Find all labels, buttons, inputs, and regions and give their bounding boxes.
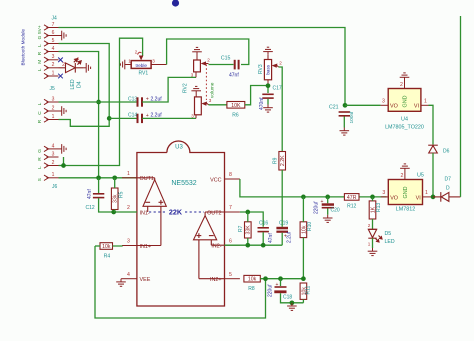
svg-text:R: R — [37, 51, 43, 55]
svg-text:C17: C17 — [273, 86, 282, 92]
J6 pin 3 — [44, 154, 59, 159]
wire IN2- net — [225, 244, 283, 246]
svg-text:LM7812: LM7812 — [396, 207, 415, 213]
svg-text:VCC: VCC — [210, 177, 221, 183]
svg-text:2: 2 — [400, 173, 403, 179]
svg-text:VEE: VEE — [140, 277, 151, 283]
LED D5 — [368, 229, 382, 242]
potentiometer RV3 (bass) — [264, 60, 271, 80]
ground at RV3 top — [263, 47, 273, 55]
junction C14 node — [107, 116, 112, 121]
potentiometer RV1 (treble) — [131, 61, 151, 69]
wire C20 top lead — [327, 197, 329, 203]
wire R11 bottom lead — [302, 299, 304, 302]
svg-text:U5: U5 — [417, 173, 424, 179]
diode D7 — [433, 192, 461, 202]
U3 pin 4 VEE — [122, 278, 137, 280]
svg-text:5V+: 5V+ — [37, 25, 43, 34]
resistor R4 — [100, 243, 113, 250]
svg-text:220uf: 220uf — [314, 201, 320, 214]
svg-text:VI: VI — [414, 103, 419, 109]
mechanical link dashed (volume) — [205, 65, 207, 101]
J4 pin 5 — [44, 41, 59, 46]
resistor R9 — [279, 152, 286, 171]
svg-text:OUT1: OUT1 — [140, 176, 154, 182]
J4 pin 2 — [44, 65, 59, 70]
svg-text:NE5532: NE5532 — [171, 180, 196, 187]
svg-text:J5: J5 — [50, 86, 56, 92]
junction C17 — [266, 83, 271, 88]
svg-text:RV3: RV3 — [258, 64, 264, 74]
wire J6 pin 2 up to RV1 wiper — [59, 38, 143, 165]
svg-text:OUT2: OUT2 — [207, 210, 221, 216]
ground at U4 GND — [400, 73, 410, 81]
wire C18 top lead — [280, 279, 282, 286]
svg-text:3: 3 — [52, 151, 55, 157]
J4 pin 6 — [44, 33, 59, 38]
wire to C12 top — [98, 178, 100, 193]
svg-text:7: 7 — [52, 22, 55, 28]
svg-text:GND: GND — [403, 95, 409, 107]
svg-text:C18: C18 — [283, 295, 292, 301]
wire C17 to ground — [267, 99, 269, 105]
svg-text:IN1-: IN1- — [140, 210, 150, 216]
svg-text:D4: D4 — [77, 81, 83, 88]
svg-text:2: 2 — [62, 62, 65, 68]
svg-text:RV1: RV1 — [138, 71, 148, 77]
no-connect X at J4 pin 1 — [58, 74, 63, 79]
svg-text:+: + — [321, 199, 324, 205]
junction C20 — [325, 195, 330, 200]
svg-text:IN2+: IN2+ — [210, 277, 222, 283]
ground at C17 — [263, 105, 273, 113]
svg-text:1: 1 — [52, 114, 55, 120]
svg-text:IN1+: IN1+ — [140, 244, 152, 250]
svg-text:C20: C20 — [331, 208, 340, 214]
wire R6 to C17 node — [245, 86, 268, 105]
potentiometer RV2 section A (volume) — [194, 60, 201, 72]
wire RV3 wiper down to R9 — [279, 67, 283, 152]
wire R4 left stub — [95, 245, 100, 247]
svg-text:C16: C16 — [259, 221, 268, 227]
wire R12 to U5 — [359, 196, 387, 198]
wire C12 bottom to U3 pin 2 — [99, 198, 137, 212]
feedback 22K dashed annotation — [149, 211, 166, 213]
junction C12 top — [96, 175, 101, 180]
capacitor C21 100nf — [339, 112, 350, 116]
U3 pin 1 OUT1 — [122, 177, 137, 179]
svg-text:10K: 10K — [231, 103, 241, 109]
svg-text:4: 4 — [52, 46, 55, 52]
wire RV2 wiper to R6 — [209, 104, 227, 106]
wire R7 top lead — [247, 212, 249, 222]
junction feedback — [263, 276, 268, 281]
op-amp U3B triangle — [194, 212, 225, 279]
svg-text:R10: R10 — [307, 222, 313, 231]
svg-text:GND: GND — [403, 186, 409, 198]
svg-text:volume: volume — [210, 82, 216, 98]
svg-text:R9: R9 — [273, 157, 279, 164]
svg-text:R7: R7 — [238, 225, 244, 232]
op-amp U3 NE5532 body — [137, 141, 225, 306]
capacitor C16 47nf — [258, 228, 269, 232]
ground at LED D4 — [83, 63, 91, 73]
svg-text:10k: 10k — [102, 244, 111, 250]
wire J4 pin 5 down to C14 node — [59, 44, 110, 119]
ground at RV1 pin 1 — [120, 60, 128, 70]
resistor R11 — [300, 283, 307, 299]
wire J5 pin 3 to C13 — [59, 101, 138, 103]
svg-text:8: 8 — [229, 172, 232, 178]
svg-text:R4: R4 — [104, 254, 111, 260]
J5 pin 2 — [44, 108, 59, 113]
svg-text:22K: 22K — [169, 208, 183, 217]
J4 pin 1 — [44, 73, 59, 78]
svg-text:M: M — [37, 60, 43, 64]
potentiometer RV2 section B (volume) — [195, 97, 202, 115]
U3 pin 8 VCC — [225, 178, 240, 180]
J5 pin 3 — [44, 99, 59, 104]
svg-text:2: 2 — [279, 61, 282, 66]
junction R7 top — [245, 210, 250, 215]
junction R11 top — [301, 276, 306, 281]
resistor R6 — [227, 102, 245, 109]
ground at C21 — [340, 128, 350, 136]
junction C18 ground — [290, 300, 295, 305]
svg-text:+: + — [276, 282, 279, 288]
svg-text:2: 2 — [368, 223, 371, 228]
J6 pin 2 — [44, 163, 59, 168]
svg-text:J6: J6 — [52, 184, 58, 190]
junction J5 pin3 / J4 pin4 — [96, 100, 101, 105]
svg-text:LED: LED — [385, 239, 395, 245]
svg-text:R: R — [37, 157, 43, 161]
wire J4 pin 4 down to OUT1 net — [59, 52, 99, 178]
svg-text:D6: D6 — [443, 149, 450, 155]
svg-text:5: 5 — [229, 272, 232, 278]
svg-text:VO: VO — [390, 103, 398, 109]
svg-text:2: 2 — [52, 160, 55, 166]
wire OUT2 to C16 — [240, 212, 263, 227]
svg-text:treble: treble — [135, 63, 147, 68]
svg-text:4: 4 — [127, 272, 130, 278]
wire R13 to D5 — [372, 219, 374, 229]
svg-text:2: 2 — [52, 105, 55, 111]
svg-text:IN2-: IN2- — [211, 244, 221, 250]
wire feedback loop bottom — [95, 246, 266, 318]
resistor R13 — [369, 201, 376, 219]
svg-text:L: L — [37, 166, 43, 169]
svg-text:C13: C13 — [128, 96, 137, 102]
ground at C18 — [287, 303, 297, 311]
svg-text:2.2uf: 2.2uf — [287, 231, 293, 243]
wire R10 top lead — [302, 197, 304, 222]
svg-text:L: L — [37, 44, 43, 47]
svg-text:G: G — [37, 149, 43, 153]
svg-text:47nf: 47nf — [229, 73, 239, 79]
wire to C14 left — [109, 117, 137, 119]
wire C20 bottom lead — [327, 209, 329, 215]
op-amp U3A triangle — [137, 178, 166, 246]
no-connect X at J4 pin 3 — [58, 58, 63, 63]
ground at D5 — [368, 248, 378, 256]
svg-text:C21: C21 — [329, 104, 339, 110]
svg-text:C19: C19 — [279, 221, 288, 227]
svg-text:R5: R5 — [118, 191, 124, 198]
svg-text:2: 2 — [400, 82, 403, 88]
svg-text:1: 1 — [425, 190, 428, 196]
wire R9 down to C19 (crosses VCC rail) — [281, 170, 283, 227]
svg-text:R11: R11 — [306, 285, 312, 294]
wire R10 bottom lead — [302, 238, 304, 279]
resistor R5 — [111, 188, 118, 210]
svg-text:U4: U4 — [401, 117, 408, 123]
svg-text:R: R — [37, 119, 43, 123]
ground at J5 pin 2 — [59, 106, 67, 116]
svg-text:1: 1 — [128, 59, 131, 64]
svg-text:D5: D5 — [385, 231, 392, 237]
capacitor C19 2.2uf polarized — [276, 227, 288, 230]
junction J6 pin2 — [61, 163, 66, 168]
wire OUT1 net from J6 pin 1 to U3 pin 1 — [59, 177, 137, 179]
ground between RV2 sections — [191, 86, 201, 96]
junction R5 top — [112, 175, 117, 180]
svg-text:2: 2 — [52, 62, 55, 68]
svg-text:3: 3 — [382, 190, 385, 196]
wire D6 down to U5 VI node — [432, 153, 434, 197]
svg-text:10k: 10k — [248, 277, 257, 283]
svg-text:7: 7 — [229, 205, 232, 211]
J6 pin 4 — [44, 146, 59, 151]
junction R5 bottom — [111, 210, 116, 215]
wire C21 to ground — [343, 117, 345, 128]
wire RV2a wiper to C15 — [209, 64, 234, 66]
wire C14 right to RV2b low terminal — [142, 117, 196, 119]
wire C13 right to RV2a low terminal — [142, 77, 196, 102]
svg-text:3: 3 — [127, 239, 130, 245]
svg-text:47R: 47R — [347, 195, 357, 201]
svg-text:2.2K: 2.2K — [280, 155, 286, 166]
svg-text:RV2: RV2 — [183, 83, 189, 93]
svg-text:U3: U3 — [175, 145, 183, 151]
wire J5 pin 1 to C14 node — [59, 118, 110, 126]
ground at J6 pin 4 — [59, 144, 67, 154]
wire D5 to ground — [372, 238, 374, 248]
cropped title text descender — [172, 0, 179, 7]
svg-text:LM7805_TO220: LM7805_TO220 — [385, 125, 424, 131]
U3 pin 3 IN1+ — [122, 245, 137, 247]
junction R10 top — [301, 195, 306, 200]
wire U4 VI down to D6 — [429, 105, 434, 144]
svg-text:S: S — [37, 178, 43, 181]
svg-text:bass: bass — [266, 64, 271, 74]
svg-text:5: 5 — [52, 38, 55, 44]
J4 pin 7 — [44, 25, 59, 30]
capacitor C14 2.2uf — [138, 114, 143, 123]
svg-text:C12: C12 — [86, 205, 95, 211]
wire J6 pin3 to pin2 tie — [63, 157, 65, 166]
svg-text:1: 1 — [52, 172, 55, 178]
regulator U4 LM7805_TO220 — [388, 89, 421, 112]
svg-text:J4: J4 — [52, 16, 58, 22]
svg-text:D: D — [446, 186, 450, 192]
wire R13 top lead — [372, 197, 374, 201]
wire R5 top — [114, 178, 116, 188]
svg-text:6: 6 — [229, 238, 232, 244]
wire C18 bottom to R11 bottom — [281, 293, 304, 303]
svg-text:C15: C15 — [221, 55, 231, 61]
resistor R7 — [245, 222, 252, 238]
wire RV1 pin 3 to C15 right — [167, 39, 249, 65]
svg-text:2: 2 — [207, 58, 210, 63]
wire C21 to U4 VO — [345, 104, 381, 106]
wire R5 bottom — [114, 210, 116, 213]
wire R7 bottom lead — [247, 238, 249, 245]
svg-text:R12: R12 — [347, 204, 356, 210]
svg-text:3: 3 — [152, 59, 155, 64]
svg-text:C14: C14 — [128, 113, 137, 119]
J6 pin 1 — [44, 175, 59, 180]
ground at U3 VEE — [116, 279, 126, 287]
svg-text:Bluetooth Module: Bluetooth Module — [21, 29, 26, 66]
svg-text:R6: R6 — [232, 113, 239, 119]
junction R13 top — [370, 195, 375, 200]
U3 pin 2 IN1- — [122, 211, 137, 213]
U3 pin 7 OUT2 — [225, 211, 240, 213]
junction C18 top — [278, 276, 283, 281]
svg-text:L: L — [37, 102, 43, 105]
U3 pin 5 IN2+ — [225, 278, 240, 280]
junction D6 / U5 VI / D7 — [431, 195, 436, 200]
svg-text:1: 1 — [77, 56, 80, 61]
svg-text:LED: LED — [70, 79, 76, 89]
svg-text:3: 3 — [52, 54, 55, 60]
wire C16 bottom — [262, 232, 264, 245]
wire R8 to R11 — [260, 278, 303, 280]
svg-text:VO: VO — [390, 196, 398, 202]
svg-text:1: 1 — [127, 171, 130, 177]
wire VCC rail — [240, 179, 345, 197]
svg-text:6: 6 — [52, 30, 55, 36]
svg-text:1: 1 — [52, 70, 55, 76]
wire C19 bottom — [281, 233, 283, 245]
ground at RV2 section A top — [192, 47, 202, 55]
junction R7 bottom — [245, 243, 250, 248]
wire 5V+ rail from J4 pin 7 to C21 — [59, 28, 346, 106]
svg-text:D7: D7 — [445, 177, 452, 183]
svg-text:R8: R8 — [248, 286, 255, 292]
svg-text:1: 1 — [424, 99, 427, 105]
J5 pin 1 — [44, 117, 59, 122]
svg-text:G: G — [37, 35, 43, 39]
svg-text:1: 1 — [368, 242, 371, 247]
resistor R12 — [344, 194, 359, 201]
wire D7 anode up right edge — [460, 16, 462, 197]
svg-text:47nf: 47nf — [87, 189, 93, 199]
svg-text:33K: 33K — [246, 225, 252, 235]
wire RV3 to C17 — [267, 85, 269, 94]
svg-text:220uf: 220uf — [268, 284, 274, 297]
svg-text:R13: R13 — [376, 203, 382, 212]
ground at U5 GND — [400, 164, 410, 172]
wire R4 to U3 pin 3 — [113, 245, 123, 248]
svg-text:47nf: 47nf — [268, 233, 274, 243]
J4 pin 4 — [44, 49, 59, 54]
svg-text:3: 3 — [382, 99, 385, 105]
ground at C20 — [323, 215, 333, 223]
junction C16 bottom — [261, 243, 266, 248]
junction C21 — [343, 103, 348, 108]
resistor R10 — [300, 222, 307, 238]
svg-text:4: 4 — [52, 143, 55, 149]
diode D6 — [428, 145, 438, 153]
svg-text:3: 3 — [52, 96, 55, 102]
svg-text:100nf: 100nf — [349, 111, 355, 124]
regulator U5 LM7812 — [388, 180, 422, 205]
resistor R8 — [244, 275, 260, 282]
svg-text:L: L — [37, 68, 43, 71]
U3 pin 6 IN2- — [225, 244, 240, 246]
J4 pin 3 — [44, 57, 59, 62]
capacitor C13 2.2uf — [138, 97, 143, 106]
svg-text:VI: VI — [416, 196, 421, 202]
svg-text:2: 2 — [127, 205, 130, 211]
capacitor C12 plates — [93, 194, 104, 198]
svg-text:C: C — [37, 111, 43, 115]
ground at J4 pin 6 — [59, 31, 67, 41]
capacitor C15 47nf — [235, 60, 239, 70]
capacitor C17 470nf — [262, 94, 273, 98]
